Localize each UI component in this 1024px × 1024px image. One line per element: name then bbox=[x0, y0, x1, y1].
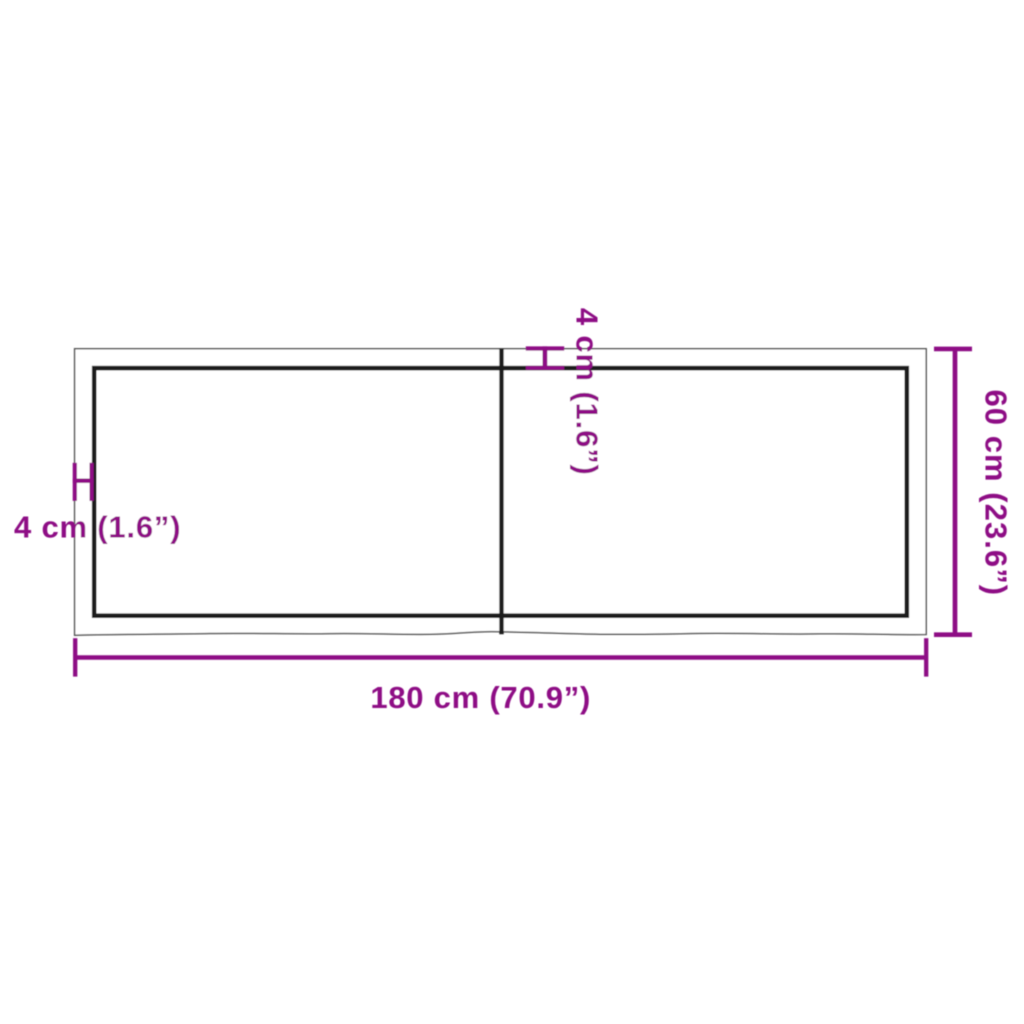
svg-text:4 cm (1.6”): 4 cm (1.6”) bbox=[14, 510, 181, 545]
wood slab outer outline (top view, wavy live bottom edge) bbox=[75, 349, 927, 635]
right height label: 60 cm (23.6in), rotated 90deg bbox=[978, 389, 1013, 596]
right height dimension line with end ticks bbox=[934, 349, 972, 635]
table top inner edge rectangle (thick dark border) bbox=[94, 368, 907, 616]
top thickness marker (rotated H symbol) bbox=[526, 346, 564, 370]
svg-text:180 cm (70.9”): 180 cm (70.9”) bbox=[370, 680, 591, 715]
svg-text:4 cm (1.6”): 4 cm (1.6”) bbox=[570, 308, 605, 476]
board seam (center divider line) bbox=[499, 349, 503, 634]
bottom width dimension line with end ticks bbox=[75, 638, 926, 676]
svg-text:60 cm (23.6”): 60 cm (23.6”) bbox=[978, 389, 1013, 596]
top thickness label: 4 cm (1.6in), rotated 90deg bbox=[570, 308, 605, 476]
left thickness marker (H symbol) bbox=[73, 463, 94, 501]
